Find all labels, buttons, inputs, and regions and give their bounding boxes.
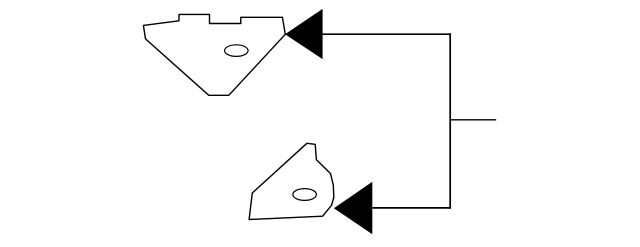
leader line: upper horizontal [323,33,451,35]
tick: callout stub to the right [450,119,496,121]
part outline: lower bracket [249,143,334,219]
callout arrow: lower (points left at lower bracket) [334,182,372,234]
callout arrow: upper (points left at upper bracket) [285,9,323,59]
mounting hole: upper bracket ellipse [225,45,249,57]
leader line: right vertical [449,33,451,208]
leader line: lower horizontal [372,207,450,209]
mounting hole: lower bracket ellipse [293,189,317,201]
part outline: upper bracket [143,14,285,95]
